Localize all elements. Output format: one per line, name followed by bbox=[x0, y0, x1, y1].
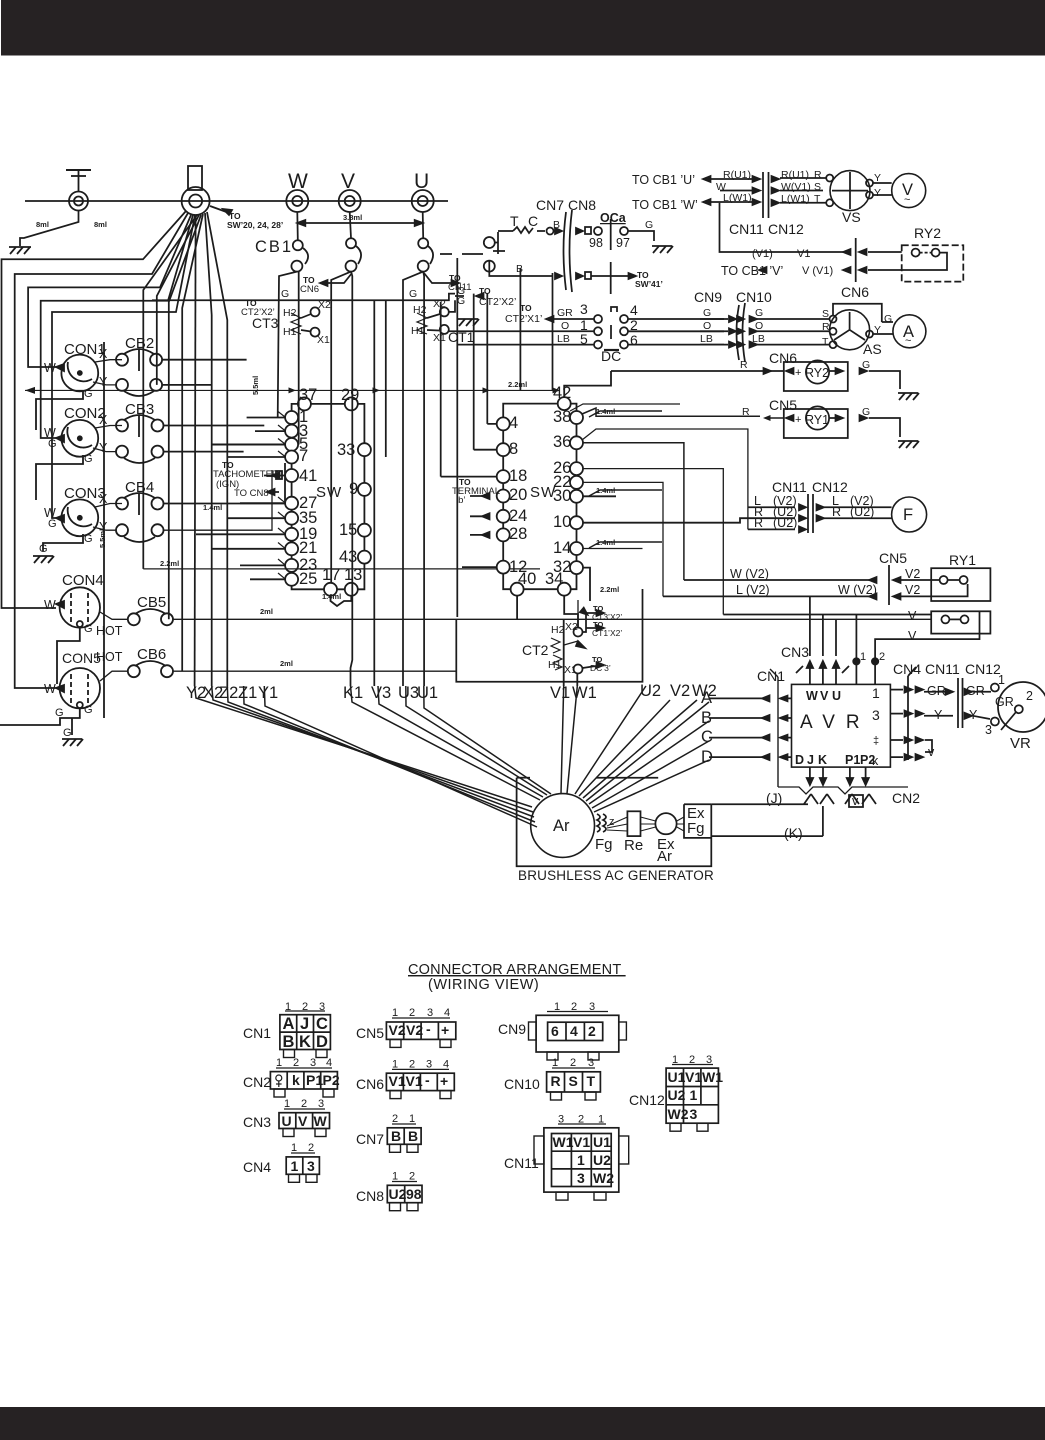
svg-text:VS: VS bbox=[842, 209, 861, 225]
svg-text:P1: P1 bbox=[306, 1072, 323, 1088]
svg-text:V1: V1 bbox=[797, 248, 810, 260]
svg-text:RY1: RY1 bbox=[949, 552, 976, 568]
svg-text:2: 2 bbox=[302, 1001, 308, 1013]
svg-text:D: D bbox=[316, 1033, 328, 1051]
svg-text:4: 4 bbox=[570, 1023, 578, 1039]
svg-text:VR: VR bbox=[1010, 735, 1031, 752]
svg-text:6: 6 bbox=[551, 1023, 559, 1039]
svg-text:6: 6 bbox=[630, 332, 638, 348]
svg-text:V: V bbox=[908, 609, 917, 623]
svg-text:14: 14 bbox=[553, 539, 571, 557]
svg-text:G: G bbox=[39, 543, 48, 555]
svg-text:G: G bbox=[884, 313, 892, 325]
svg-text:5.5ml: 5.5ml bbox=[251, 376, 260, 395]
svg-text:O: O bbox=[703, 320, 711, 332]
svg-text:CN5: CN5 bbox=[879, 550, 907, 566]
svg-text:L(W1): L(W1) bbox=[781, 193, 810, 205]
svg-text:Ar: Ar bbox=[553, 817, 570, 835]
svg-text:3: 3 bbox=[318, 1098, 324, 1110]
svg-text:CN1: CN1 bbox=[757, 668, 785, 684]
svg-text:CB6: CB6 bbox=[137, 646, 166, 663]
svg-text:G: G bbox=[84, 533, 93, 545]
svg-text:W: W bbox=[44, 361, 56, 375]
svg-text:3: 3 bbox=[706, 1054, 712, 1066]
svg-text:1: 1 bbox=[392, 1171, 398, 1183]
svg-text:W (V2): W (V2) bbox=[838, 583, 877, 597]
svg-text:G: G bbox=[55, 707, 64, 719]
svg-text:CB2: CB2 bbox=[125, 335, 154, 352]
svg-text:3: 3 bbox=[319, 1001, 325, 1013]
svg-text:X2: X2 bbox=[565, 621, 578, 633]
svg-text:CN8: CN8 bbox=[356, 1188, 384, 1204]
svg-text:V2: V2 bbox=[670, 682, 690, 700]
svg-text:TO CB1 ’U’: TO CB1 ’U’ bbox=[632, 173, 695, 187]
svg-text:U2: U2 bbox=[593, 1152, 611, 1168]
svg-text:X1: X1 bbox=[564, 664, 577, 676]
svg-text:CN4: CN4 bbox=[243, 1159, 271, 1175]
svg-text:CT2’X1’: CT2’X1’ bbox=[505, 313, 542, 325]
svg-text:V3: V3 bbox=[371, 684, 391, 702]
svg-text:V: V bbox=[820, 689, 829, 703]
svg-text:X2: X2 bbox=[318, 299, 331, 311]
svg-text:24: 24 bbox=[509, 507, 527, 525]
svg-text:2: 2 bbox=[392, 1113, 398, 1125]
svg-text:U: U bbox=[282, 1113, 292, 1129]
svg-text:TO CB1 ’W’: TO CB1 ’W’ bbox=[632, 198, 698, 212]
svg-text:CN10: CN10 bbox=[504, 1076, 540, 1092]
svg-text:CT3: CT3 bbox=[252, 315, 279, 331]
svg-text:G: G bbox=[48, 438, 57, 450]
svg-text:(V1): (V1) bbox=[752, 248, 773, 260]
svg-text:CN12: CN12 bbox=[812, 479, 848, 495]
svg-text:A: A bbox=[283, 1015, 295, 1033]
svg-text:GR: GR bbox=[966, 684, 985, 698]
svg-text:W1: W1 bbox=[702, 1069, 723, 1085]
svg-text:SW: SW bbox=[316, 484, 342, 501]
svg-text:CN10: CN10 bbox=[736, 289, 772, 305]
svg-text:R(U1): R(U1) bbox=[781, 169, 809, 181]
svg-text:34: 34 bbox=[545, 570, 563, 588]
svg-text:+: + bbox=[440, 1073, 448, 1089]
svg-text:28: 28 bbox=[509, 525, 527, 543]
svg-text:TO CB1 ’V’: TO CB1 ’V’ bbox=[721, 264, 783, 278]
svg-text:G: G bbox=[645, 219, 653, 231]
svg-text:Y: Y bbox=[99, 375, 108, 389]
svg-text:V2: V2 bbox=[905, 567, 920, 581]
svg-text:1: 1 bbox=[284, 1098, 290, 1110]
svg-text:2: 2 bbox=[409, 1059, 415, 1071]
svg-text:Y: Y bbox=[969, 708, 978, 722]
svg-text:DC: DC bbox=[601, 348, 621, 364]
svg-text:K: K bbox=[299, 1033, 311, 1051]
svg-text:W2: W2 bbox=[668, 1106, 689, 1122]
svg-text:P2: P2 bbox=[323, 1072, 340, 1088]
svg-text:X2: X2 bbox=[433, 298, 446, 310]
svg-text:5.5ml: 5.5ml bbox=[98, 529, 107, 548]
svg-text:U: U bbox=[832, 689, 841, 703]
svg-text:LB: LB bbox=[752, 333, 765, 345]
svg-text:V: V bbox=[908, 629, 917, 643]
svg-text:3: 3 bbox=[589, 1001, 595, 1013]
svg-text:97: 97 bbox=[616, 236, 630, 250]
svg-text:1: 1 bbox=[552, 1057, 558, 1069]
svg-text:RY2: RY2 bbox=[914, 225, 941, 241]
svg-text:-: - bbox=[425, 1072, 430, 1088]
svg-text:B: B bbox=[408, 1128, 418, 1144]
svg-text:W: W bbox=[44, 598, 56, 612]
svg-text:2: 2 bbox=[570, 1057, 576, 1069]
svg-text:1.4ml: 1.4ml bbox=[322, 592, 341, 601]
svg-text:37: 37 bbox=[299, 386, 317, 404]
svg-text:3: 3 bbox=[588, 1057, 594, 1069]
svg-text:CT2: CT2 bbox=[522, 642, 549, 658]
svg-text:1: 1 bbox=[872, 685, 880, 701]
svg-text:CB5: CB5 bbox=[137, 594, 166, 611]
svg-text:TO CN8: TO CN8 bbox=[234, 488, 269, 499]
svg-text:1: 1 bbox=[291, 1142, 297, 1154]
svg-text:z: z bbox=[609, 816, 615, 828]
svg-text:CN3: CN3 bbox=[243, 1114, 271, 1130]
svg-text:(U2): (U2) bbox=[850, 505, 874, 519]
svg-text:15: 15 bbox=[339, 521, 357, 539]
svg-text:+: + bbox=[795, 414, 801, 426]
svg-text:Re: Re bbox=[624, 837, 643, 854]
svg-text:LB: LB bbox=[557, 333, 570, 345]
svg-text:CT1: CT1 bbox=[448, 329, 475, 345]
svg-text:D: D bbox=[795, 753, 804, 767]
svg-text:1: 1 bbox=[392, 1059, 398, 1071]
svg-text:36: 36 bbox=[553, 433, 571, 451]
svg-text:G: G bbox=[457, 295, 465, 307]
svg-text:(WIRING VIEW): (WIRING VIEW) bbox=[428, 977, 539, 993]
svg-text:GR: GR bbox=[927, 684, 946, 698]
svg-text:B: B bbox=[391, 1128, 401, 1144]
svg-text:8ml: 8ml bbox=[94, 220, 107, 229]
svg-text:3: 3 bbox=[310, 1057, 316, 1069]
svg-text:1: 1 bbox=[577, 1152, 585, 1168]
svg-text:H2: H2 bbox=[413, 304, 427, 316]
svg-text:GR: GR bbox=[995, 695, 1014, 709]
svg-text:V2: V2 bbox=[406, 1022, 423, 1038]
svg-text:SW’41’: SW’41’ bbox=[635, 279, 663, 289]
svg-text:CT2’X2’: CT2’X2’ bbox=[479, 296, 516, 308]
svg-text:G: G bbox=[862, 359, 870, 371]
svg-text:AS: AS bbox=[863, 341, 882, 357]
svg-text:G: G bbox=[84, 623, 93, 635]
svg-text:43: 43 bbox=[339, 548, 357, 566]
svg-text:CN6: CN6 bbox=[769, 350, 797, 366]
svg-text:R: R bbox=[551, 1073, 561, 1089]
svg-text:H1: H1 bbox=[548, 659, 562, 671]
svg-text:CN11: CN11 bbox=[504, 1155, 539, 1171]
svg-text:V (V1): V (V1) bbox=[802, 265, 833, 277]
svg-text:2: 2 bbox=[689, 1054, 695, 1066]
svg-text:8ml: 8ml bbox=[36, 220, 49, 229]
svg-text:V1: V1 bbox=[573, 1134, 590, 1150]
svg-text:3: 3 bbox=[872, 707, 880, 723]
svg-text:X: X bbox=[99, 492, 108, 506]
svg-text:3: 3 bbox=[985, 723, 992, 737]
svg-text:OCa: OCa bbox=[600, 211, 627, 225]
svg-text:CN6: CN6 bbox=[300, 284, 319, 295]
svg-text:H1: H1 bbox=[283, 326, 297, 338]
svg-text:v: v bbox=[928, 745, 935, 759]
svg-text:L (V2): L (V2) bbox=[736, 583, 770, 597]
svg-text:W2: W2 bbox=[593, 1170, 614, 1186]
svg-text:Y: Y bbox=[874, 324, 881, 336]
svg-text:1: 1 bbox=[690, 1087, 698, 1103]
svg-text:2: 2 bbox=[409, 1007, 415, 1019]
svg-text:R: R bbox=[814, 169, 822, 181]
svg-text:U1: U1 bbox=[593, 1134, 611, 1150]
svg-text:4: 4 bbox=[443, 1059, 449, 1071]
svg-text:2: 2 bbox=[879, 651, 885, 663]
svg-text:2ml: 2ml bbox=[260, 607, 273, 616]
svg-text:AVR: AVR bbox=[800, 712, 871, 733]
svg-text:U1: U1 bbox=[417, 684, 438, 702]
svg-text:2: 2 bbox=[630, 317, 638, 333]
svg-text:G: G bbox=[84, 453, 93, 465]
svg-text:G: G bbox=[48, 518, 57, 530]
svg-text:TO: TO bbox=[520, 303, 532, 313]
svg-text:H1: H1 bbox=[411, 325, 425, 337]
svg-text:1: 1 bbox=[672, 1054, 678, 1066]
svg-text:H2: H2 bbox=[283, 307, 297, 319]
svg-text:CN11: CN11 bbox=[729, 221, 764, 237]
svg-text:H2: H2 bbox=[551, 624, 565, 636]
svg-text:CN9: CN9 bbox=[694, 289, 722, 305]
svg-text:2.2ml: 2.2ml bbox=[600, 585, 619, 594]
svg-text:R: R bbox=[740, 359, 748, 371]
svg-text:2: 2 bbox=[308, 1142, 314, 1154]
svg-text:(K): (K) bbox=[784, 825, 803, 841]
svg-text:4: 4 bbox=[509, 414, 518, 432]
svg-text:8: 8 bbox=[509, 440, 518, 458]
svg-text:3.8ml: 3.8ml bbox=[343, 213, 362, 222]
svg-text:Ar: Ar bbox=[657, 848, 672, 865]
svg-text:W: W bbox=[288, 170, 308, 193]
svg-text:S: S bbox=[822, 308, 829, 320]
svg-text:CN7: CN7 bbox=[536, 197, 564, 213]
svg-text:98: 98 bbox=[406, 1186, 422, 1202]
svg-text:K: K bbox=[818, 753, 827, 767]
svg-text:SW: SW bbox=[530, 484, 556, 501]
svg-text:(J): (J) bbox=[766, 790, 782, 806]
svg-text:W: W bbox=[314, 1113, 328, 1129]
svg-text:G: G bbox=[409, 288, 417, 300]
svg-text:2: 2 bbox=[409, 1171, 415, 1183]
svg-text:1: 1 bbox=[291, 1158, 299, 1174]
svg-text:Y: Y bbox=[874, 187, 881, 199]
svg-text:4: 4 bbox=[444, 1007, 450, 1019]
svg-text:LB: LB bbox=[700, 333, 713, 345]
svg-text:T: T bbox=[822, 336, 829, 348]
svg-text:13: 13 bbox=[344, 566, 362, 584]
svg-text:T: T bbox=[814, 193, 821, 205]
svg-text:W (V2): W (V2) bbox=[730, 567, 769, 581]
svg-text:Y1: Y1 bbox=[258, 684, 278, 702]
svg-text:3: 3 bbox=[577, 1170, 585, 1186]
svg-text:CN5: CN5 bbox=[356, 1025, 384, 1041]
svg-text:1: 1 bbox=[392, 1007, 398, 1019]
svg-text:U: U bbox=[414, 170, 429, 193]
svg-text:U2: U2 bbox=[389, 1186, 407, 1202]
svg-text:2: 2 bbox=[293, 1057, 299, 1069]
svg-text:Y: Y bbox=[934, 708, 943, 722]
svg-text:G: G bbox=[84, 388, 93, 400]
svg-text:W: W bbox=[44, 682, 56, 696]
svg-text:U2: U2 bbox=[668, 1087, 686, 1103]
svg-text:R: R bbox=[822, 321, 830, 333]
svg-text:2: 2 bbox=[1026, 689, 1033, 703]
svg-text:CN2: CN2 bbox=[243, 1074, 271, 1090]
svg-text:G: G bbox=[281, 288, 289, 300]
svg-text:V: V bbox=[298, 1113, 308, 1129]
svg-text:9: 9 bbox=[349, 480, 358, 498]
svg-text:+: + bbox=[795, 367, 801, 379]
svg-text:Z2: Z2 bbox=[219, 684, 238, 702]
svg-text:4: 4 bbox=[630, 302, 638, 318]
svg-text:RY2: RY2 bbox=[805, 366, 829, 380]
svg-text:CN3: CN3 bbox=[781, 644, 809, 660]
svg-text:O: O bbox=[755, 320, 763, 332]
svg-text:1: 1 bbox=[276, 1057, 282, 1069]
svg-text:3: 3 bbox=[580, 301, 588, 317]
svg-text:1: 1 bbox=[409, 1113, 415, 1125]
svg-text:CT1’X2’: CT1’X2’ bbox=[592, 628, 622, 638]
svg-text:CN9: CN9 bbox=[498, 1021, 526, 1037]
svg-text:1: 1 bbox=[598, 1114, 604, 1126]
svg-text:CB1: CB1 bbox=[255, 238, 293, 256]
svg-text:3: 3 bbox=[426, 1059, 432, 1071]
svg-text:CN12: CN12 bbox=[965, 661, 1001, 677]
svg-text:-: - bbox=[426, 1021, 431, 1037]
svg-text:1: 1 bbox=[860, 651, 866, 663]
svg-text:S: S bbox=[569, 1073, 578, 1089]
svg-text:38: 38 bbox=[553, 408, 571, 426]
svg-text:1.4ml: 1.4ml bbox=[203, 503, 222, 512]
svg-text:CN12: CN12 bbox=[768, 221, 804, 237]
svg-text:G: G bbox=[755, 307, 763, 319]
svg-text:T: T bbox=[587, 1073, 596, 1089]
svg-text:3: 3 bbox=[427, 1007, 433, 1019]
svg-text:RY1: RY1 bbox=[805, 413, 829, 427]
svg-text:25: 25 bbox=[299, 570, 317, 588]
svg-text:V1: V1 bbox=[406, 1073, 423, 1089]
svg-text:G: G bbox=[84, 704, 93, 716]
svg-text:29: 29 bbox=[341, 386, 359, 404]
svg-text:2.2ml: 2.2ml bbox=[508, 380, 527, 389]
svg-text:V1: V1 bbox=[550, 684, 570, 702]
svg-text:BRUSHLESS AC GENERATOR: BRUSHLESS AC GENERATOR bbox=[518, 868, 714, 883]
svg-text:2: 2 bbox=[578, 1114, 584, 1126]
svg-text:V2: V2 bbox=[389, 1022, 406, 1038]
svg-text:Fg: Fg bbox=[687, 820, 705, 837]
svg-text:C: C bbox=[528, 213, 538, 229]
svg-text:X: X bbox=[99, 413, 108, 427]
svg-text:V: V bbox=[341, 170, 355, 193]
svg-text:CN6: CN6 bbox=[841, 284, 869, 300]
svg-text:R(U1): R(U1) bbox=[723, 169, 751, 181]
svg-text:CN1: CN1 bbox=[243, 1025, 271, 1041]
svg-text:CN11: CN11 bbox=[772, 479, 807, 495]
svg-text:X1: X1 bbox=[317, 334, 330, 346]
svg-text:K1: K1 bbox=[343, 684, 363, 702]
svg-text:‡: ‡ bbox=[873, 735, 879, 747]
svg-text:98: 98 bbox=[589, 236, 603, 250]
svg-text:CONNECTOR ARRANGEMENT: CONNECTOR ARRANGEMENT bbox=[408, 962, 626, 978]
svg-text:~: ~ bbox=[904, 194, 910, 206]
svg-text:Y: Y bbox=[99, 441, 108, 455]
svg-text:F: F bbox=[903, 506, 913, 524]
svg-text:CN4: CN4 bbox=[893, 661, 921, 677]
svg-text:CN11: CN11 bbox=[925, 661, 960, 677]
svg-text:B: B bbox=[283, 1033, 295, 1051]
svg-text:O: O bbox=[561, 320, 569, 332]
svg-text:+: + bbox=[441, 1022, 449, 1038]
svg-text:20: 20 bbox=[509, 486, 527, 504]
svg-text:X1: X1 bbox=[433, 332, 446, 344]
svg-text:2.2ml: 2.2ml bbox=[160, 559, 179, 568]
svg-text:42: 42 bbox=[553, 384, 571, 402]
svg-text:V1: V1 bbox=[685, 1069, 702, 1085]
svg-text:W1: W1 bbox=[553, 1134, 574, 1150]
svg-text:4: 4 bbox=[326, 1057, 332, 1069]
svg-text:CB4: CB4 bbox=[125, 479, 154, 496]
svg-text:CN2: CN2 bbox=[892, 790, 920, 806]
svg-text:CB3: CB3 bbox=[125, 401, 154, 418]
svg-text:G: G bbox=[862, 406, 870, 418]
svg-text:GR: GR bbox=[557, 307, 573, 319]
svg-text:X: X bbox=[99, 347, 108, 361]
svg-text:S: S bbox=[814, 181, 821, 193]
svg-text:G: G bbox=[703, 307, 711, 319]
svg-text:Fg: Fg bbox=[595, 836, 613, 853]
svg-text:J: J bbox=[300, 1015, 309, 1033]
svg-text:P1: P1 bbox=[845, 753, 860, 767]
svg-text:10: 10 bbox=[553, 513, 571, 531]
svg-text:CN7: CN7 bbox=[356, 1131, 384, 1147]
svg-text:3: 3 bbox=[558, 1114, 564, 1126]
svg-text:18: 18 bbox=[509, 467, 527, 485]
svg-text:L(W1): L(W1) bbox=[723, 192, 752, 204]
svg-text:CN5: CN5 bbox=[769, 397, 797, 413]
svg-text:B: B bbox=[516, 263, 523, 275]
svg-text:k: k bbox=[872, 754, 879, 768]
svg-text:CN8: CN8 bbox=[568, 197, 596, 213]
svg-text:1: 1 bbox=[554, 1001, 560, 1013]
svg-text:W: W bbox=[806, 689, 818, 703]
svg-text:G: G bbox=[63, 727, 72, 739]
svg-text:21: 21 bbox=[299, 539, 317, 557]
svg-text:Z1: Z1 bbox=[238, 684, 257, 702]
svg-text:DC’3’: DC’3’ bbox=[590, 663, 611, 673]
svg-text:~: ~ bbox=[905, 335, 911, 347]
svg-text:5: 5 bbox=[580, 331, 588, 347]
svg-text:1: 1 bbox=[285, 1001, 291, 1013]
svg-text:2: 2 bbox=[301, 1098, 307, 1110]
svg-text:3: 3 bbox=[307, 1158, 315, 1174]
svg-text:CON4: CON4 bbox=[62, 572, 104, 589]
svg-text:k: k bbox=[292, 1072, 300, 1088]
svg-text:3: 3 bbox=[690, 1106, 698, 1122]
svg-text:V1: V1 bbox=[389, 1073, 406, 1089]
svg-text:2: 2 bbox=[588, 1023, 596, 1039]
svg-text:v: v bbox=[852, 794, 859, 808]
svg-text:W(V1): W(V1) bbox=[781, 181, 811, 193]
svg-text:2: 2 bbox=[571, 1001, 577, 1013]
svg-text:HOT: HOT bbox=[96, 624, 123, 638]
